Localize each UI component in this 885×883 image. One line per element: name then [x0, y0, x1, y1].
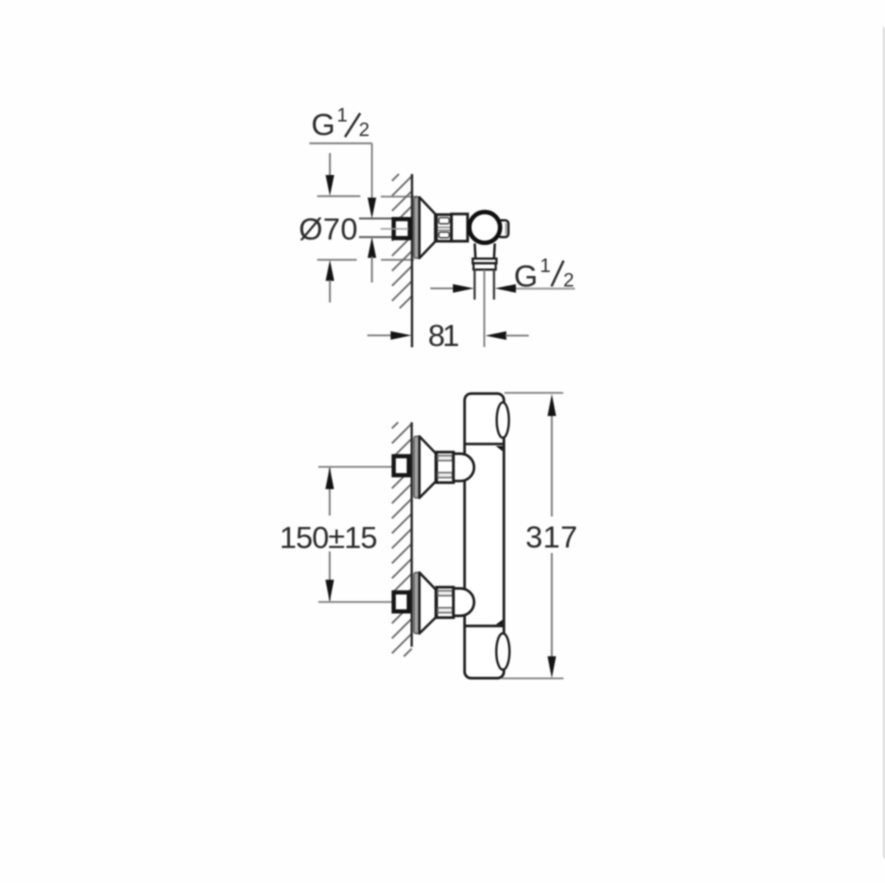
svg-text:2: 2: [359, 119, 370, 141]
svg-text:317: 317: [526, 519, 578, 554]
svg-text:81: 81: [428, 318, 460, 353]
svg-text:Ø70: Ø70: [299, 212, 358, 247]
svg-text:1: 1: [337, 105, 348, 127]
svg-text:G: G: [311, 107, 335, 142]
svg-text:150±15: 150±15: [280, 520, 378, 555]
svg-text:1: 1: [540, 255, 551, 277]
